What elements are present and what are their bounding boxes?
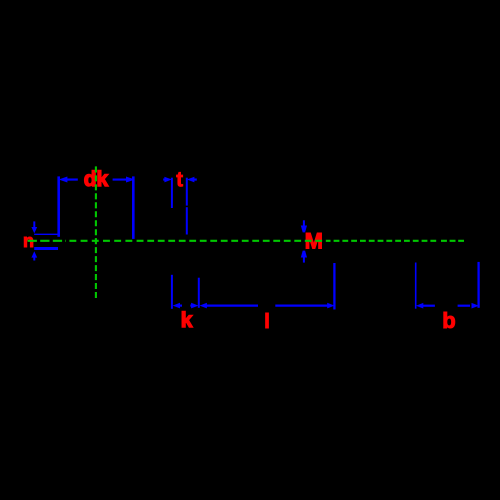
svg-text:t: t (176, 168, 183, 191)
svg-text:l: l (264, 311, 270, 333)
svg-text:b: b (442, 308, 455, 333)
svg-text:k: k (181, 309, 193, 332)
